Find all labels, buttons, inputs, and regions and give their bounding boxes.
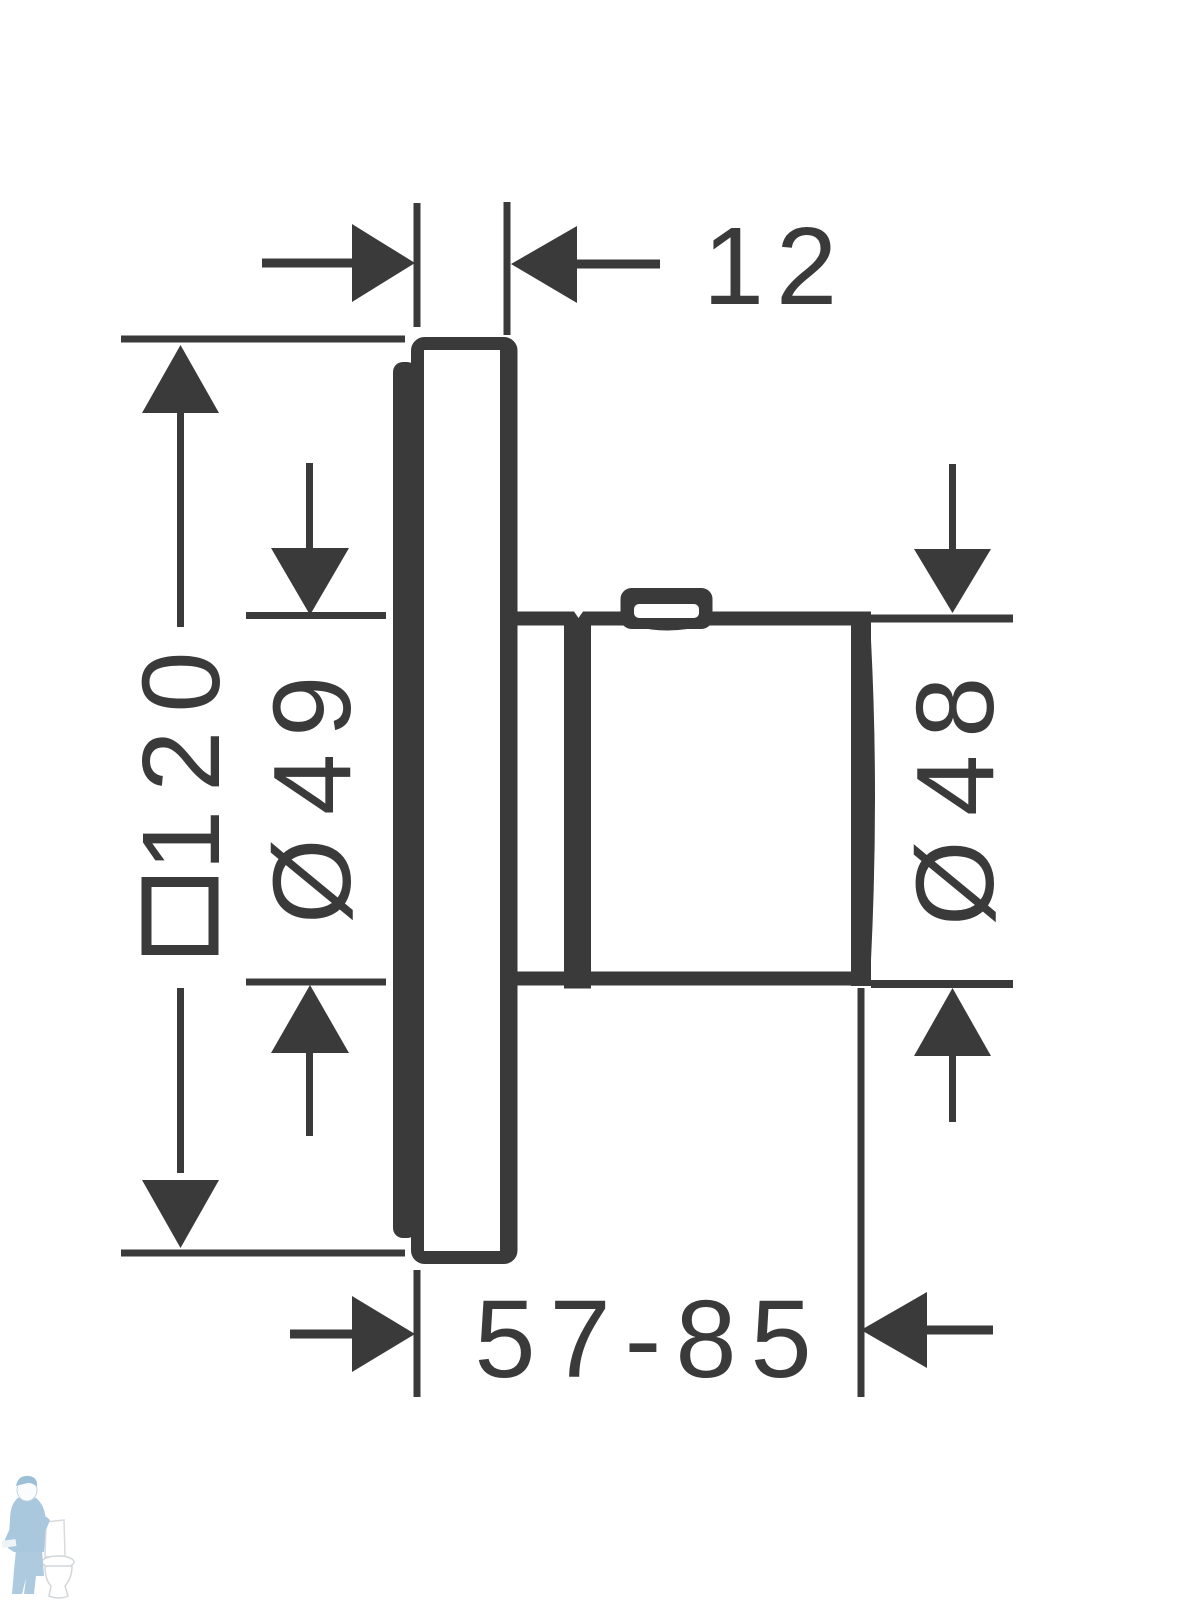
svg-text:49: 49 [251,659,374,815]
svg-text:57-85: 57-85 [474,1278,825,1401]
svg-text:120: 120 [120,633,243,871]
svg-text:Ø: Ø [894,840,1017,926]
svg-text:48: 48 [894,660,1017,816]
svg-text:12: 12 [703,205,849,328]
svg-text:Ø: Ø [251,838,374,924]
